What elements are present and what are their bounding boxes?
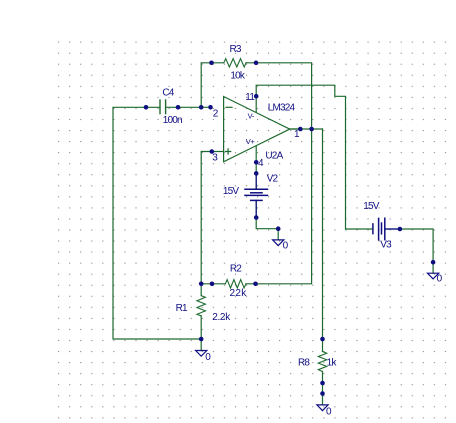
svg-text:V+: V+ <box>246 137 256 146</box>
ground at R8 stub <box>322 394 324 405</box>
resistor R1 body <box>197 296 205 316</box>
battery V2 plates <box>245 189 268 200</box>
op-amp plus marker <box>226 149 231 154</box>
svg-text:V-: V- <box>248 112 255 121</box>
junction V2 ground node <box>276 226 281 231</box>
resistor R8 body <box>318 352 326 372</box>
resistor R2 body <box>225 280 246 288</box>
wire: op-amp output run <box>290 128 323 130</box>
junction C4 left pin <box>144 105 149 110</box>
ground at V3 <box>428 273 439 279</box>
wire: R2 right riser to output <box>246 129 312 284</box>
svg-text:11: 11 <box>245 92 255 103</box>
wire: R1 top pin <box>200 284 202 296</box>
junction node output/R3/R2 <box>309 127 314 132</box>
ground at R1 stub <box>200 339 202 351</box>
junction node at R3 left riser <box>199 105 204 110</box>
svg-text:V2: V2 <box>267 174 279 185</box>
junction op-amp pin 11 <box>254 94 259 99</box>
wire: pin 4 to V2 battery <box>255 146 257 189</box>
svg-text:15V: 15V <box>363 201 380 212</box>
junction op-amp pin 3 <box>210 149 215 154</box>
wire: R1 bottom pin <box>200 316 202 339</box>
svg-text:R8: R8 <box>298 358 310 369</box>
junction V3 positive pin <box>398 227 403 232</box>
resistor R3 body <box>224 59 246 67</box>
capacitor C4 pins <box>146 106 178 108</box>
wire: output down to R8 <box>322 129 324 352</box>
wire: R2 left link <box>201 283 225 285</box>
junction V3 ground node <box>431 260 436 265</box>
wire: C4 left to left riser <box>113 107 201 339</box>
capacitor C4 plates <box>160 100 166 114</box>
junction R2 right pin <box>253 282 258 287</box>
battery V3 right pin <box>385 228 400 230</box>
wire: C4 right to op-amp pin2 <box>178 106 211 108</box>
wire: R3 left riser <box>201 63 224 108</box>
wire: pin 3 down to R1 top <box>201 152 223 284</box>
junction V2 negative pin <box>254 215 259 220</box>
junction op-amp pin 1 output <box>298 127 303 132</box>
svg-text:R1: R1 <box>176 303 188 314</box>
ground at R8 <box>317 405 328 411</box>
ground at V3 stub <box>432 262 434 273</box>
op-amp minus marker <box>226 106 232 108</box>
svg-text:LM324: LM324 <box>268 102 296 113</box>
wire: pin 11 V- rail to V3 <box>256 85 373 229</box>
battery V2 pins <box>255 173 257 217</box>
wire: V3 plus to ground corner <box>385 229 433 262</box>
op-amp U2A triangle <box>224 97 290 162</box>
junction op-amp pin 4 upper <box>254 160 259 165</box>
wire: R3 right to output junction <box>246 63 312 129</box>
junction R8 top pin <box>320 337 325 342</box>
junction R3 left pin <box>209 61 214 66</box>
ground at V2 stub <box>277 229 279 240</box>
svg-text:C4: C4 <box>162 88 174 99</box>
svg-text:10k: 10k <box>230 70 246 81</box>
junction R2 left pin <box>210 282 215 287</box>
svg-text:15V: 15V <box>223 186 240 197</box>
ground at R1 <box>196 351 207 357</box>
grid background <box>54 35 448 423</box>
junction op-amp pin 4 lower <box>254 171 259 176</box>
wire: V2 minus to ground corner <box>256 200 278 228</box>
wire: R8 bottom to ground <box>322 372 324 394</box>
svg-text:2.2k: 2.2k <box>212 312 231 323</box>
svg-text:R3: R3 <box>230 44 242 55</box>
svg-text:R2: R2 <box>230 264 242 275</box>
svg-text:U2A: U2A <box>265 151 283 162</box>
junction R8 bottom pin <box>320 381 325 386</box>
svg-text:100n: 100n <box>163 115 182 126</box>
svg-text:22k: 22k <box>230 288 248 299</box>
junction C4 right pin <box>176 105 181 110</box>
junction op-amp pin 2 <box>208 105 213 110</box>
junction R8 ground node <box>320 391 325 396</box>
ground at V2 <box>273 240 284 246</box>
battery V3 plates <box>373 218 385 240</box>
junction node R1 top / pin3 wire <box>199 282 204 287</box>
op-amp output pin <box>290 128 301 130</box>
junction R1 bottom ground node <box>199 337 204 342</box>
svg-text:V3: V3 <box>380 240 392 251</box>
junction R3 right pin <box>254 61 259 66</box>
